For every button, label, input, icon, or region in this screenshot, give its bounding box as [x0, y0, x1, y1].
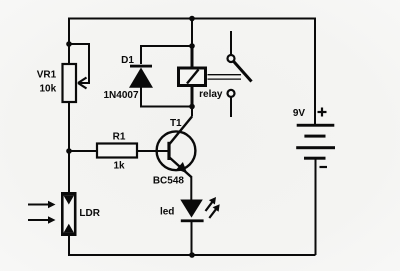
svg-text:relay: relay	[199, 89, 223, 100]
svg-text:VR1: VR1	[37, 70, 57, 81]
svg-text:T1: T1	[170, 118, 182, 129]
svg-text:BC548: BC548	[153, 176, 185, 187]
svg-text:9V: 9V	[293, 108, 306, 119]
svg-text:10k: 10k	[39, 84, 56, 95]
svg-text:R1: R1	[113, 132, 126, 143]
svg-text:D1: D1	[121, 55, 134, 66]
svg-text:1N4007: 1N4007	[103, 90, 138, 101]
svg-text:led: led	[160, 207, 174, 218]
svg-text:LDR: LDR	[79, 208, 100, 219]
svg-text:1k: 1k	[113, 161, 125, 172]
